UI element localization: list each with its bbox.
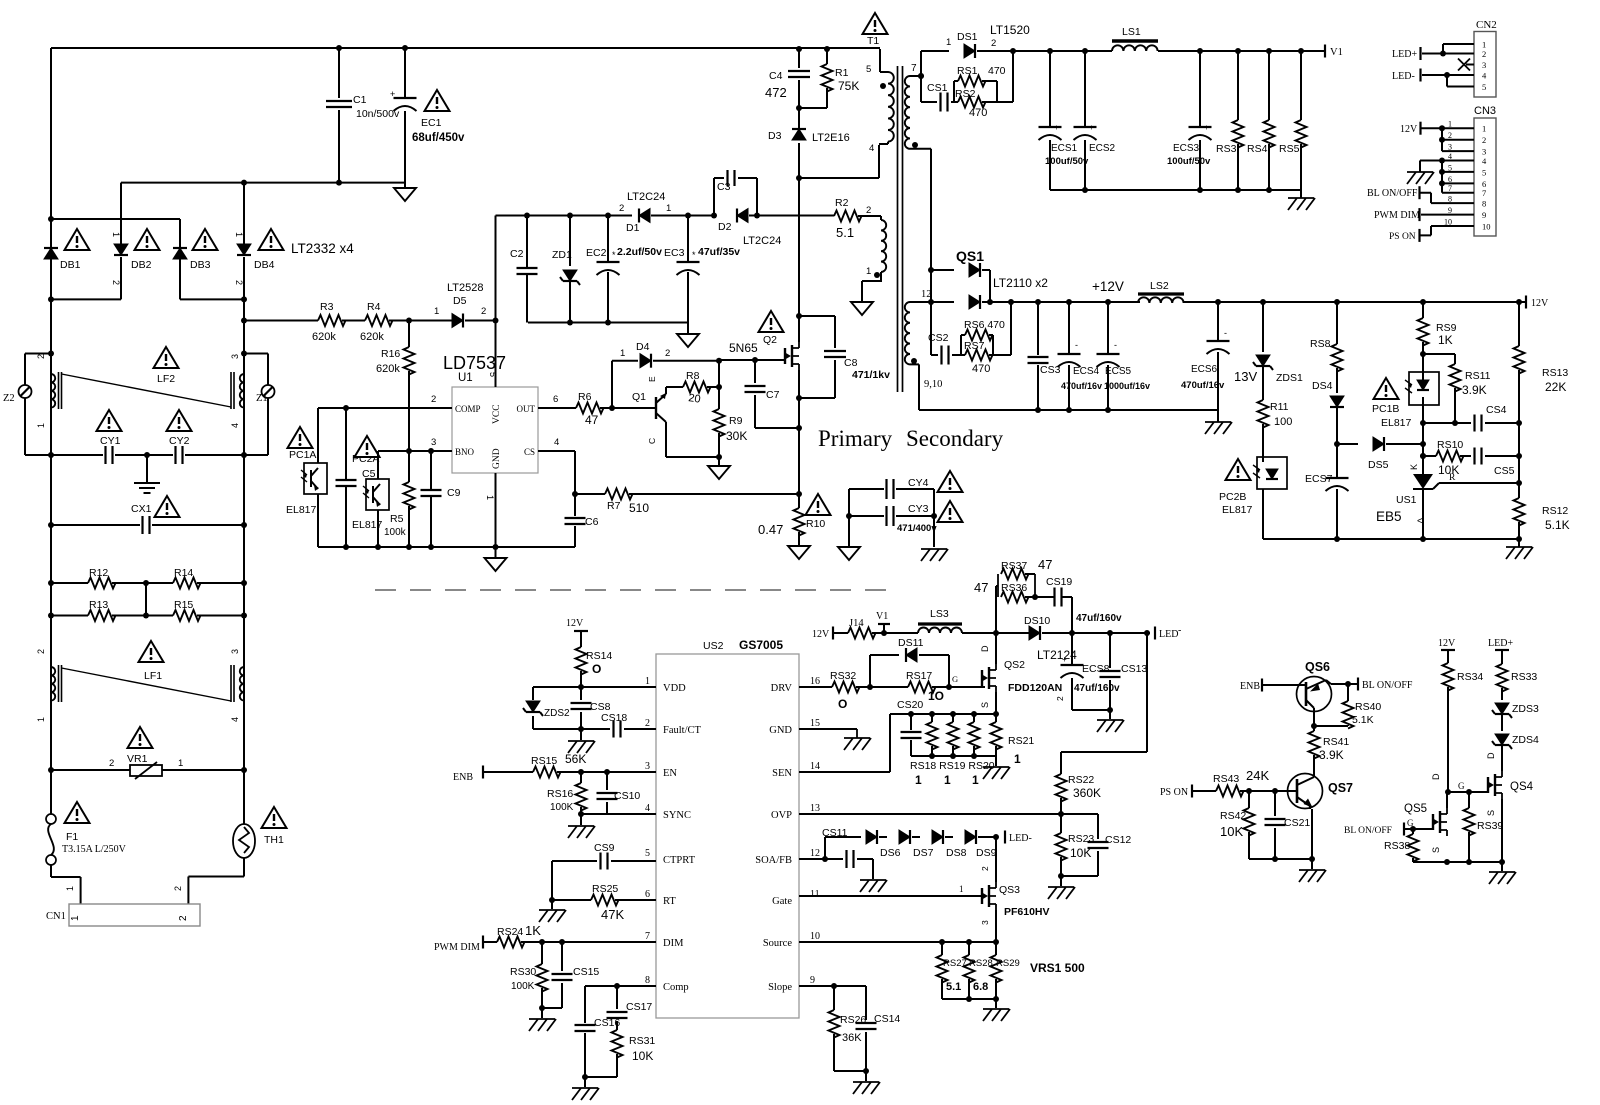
warning CY2 bbox=[167, 410, 192, 431]
resistor RS3 bbox=[1216, 51, 1244, 190]
capacitor EC3 bbox=[664, 216, 740, 323]
svg-text:LF1: LF1 bbox=[144, 670, 162, 682]
svg-text:16: 16 bbox=[810, 676, 820, 687]
wire U1 VCC lead bbox=[488, 321, 498, 388]
ground U1 bbox=[485, 547, 507, 571]
svg-text:D: D bbox=[1431, 773, 1441, 780]
svg-text:+: + bbox=[1089, 123, 1094, 132]
warning DB3 bbox=[193, 229, 218, 250]
svg-text:9: 9 bbox=[810, 975, 815, 986]
resistor RS21 bbox=[991, 714, 1035, 766]
wire R4-D5 bbox=[389, 318, 452, 324]
svg-text:100: 100 bbox=[1274, 416, 1292, 428]
wire DS6 feed bbox=[825, 837, 861, 859]
svg-text:RS32: RS32 bbox=[830, 670, 856, 682]
svg-text:CTPRT: CTPRT bbox=[663, 855, 696, 866]
svg-text:RS23: RS23 bbox=[1068, 833, 1094, 845]
svg-text:100uf/50v: 100uf/50v bbox=[1045, 156, 1089, 167]
svg-text:CS: CS bbox=[524, 447, 535, 457]
transformer T1 primary coil bbox=[866, 49, 894, 144]
resistor RS28 bbox=[964, 942, 993, 999]
svg-text:+: + bbox=[1054, 123, 1059, 132]
svg-text:ECS3: ECS3 bbox=[1173, 143, 1200, 154]
svg-text:DS10: DS10 bbox=[1024, 615, 1050, 627]
svg-text:75K: 75K bbox=[838, 79, 859, 93]
ground RS29 bbox=[983, 999, 1010, 1021]
svg-text:R2: R2 bbox=[835, 197, 849, 209]
warning CY1 bbox=[97, 410, 122, 431]
diode DS9 bbox=[965, 830, 999, 859]
svg-text:RS39: RS39 bbox=[1477, 820, 1503, 832]
wire J14-LS3 bbox=[872, 630, 918, 636]
svg-text:470: 470 bbox=[969, 107, 987, 119]
svg-text:QS2: QS2 bbox=[1004, 659, 1025, 671]
svg-text:1K: 1K bbox=[525, 923, 541, 938]
svg-text:Fault/CT: Fault/CT bbox=[663, 725, 702, 736]
resistor RS16 bbox=[547, 772, 587, 814]
svg-text:RS36: RS36 bbox=[1001, 582, 1027, 594]
svg-text:1O: 1O bbox=[928, 689, 944, 703]
svg-text:CS20: CS20 bbox=[897, 699, 923, 711]
wire QS2 drain bbox=[995, 633, 997, 664]
capacitor ECS6 bbox=[1181, 302, 1230, 410]
resistor RS12 bbox=[1514, 423, 1570, 539]
wire RS22 top bbox=[1061, 633, 1147, 774]
ground EC1 bbox=[394, 182, 416, 201]
svg-text:3: 3 bbox=[1482, 60, 1486, 70]
resistor R5 bbox=[384, 451, 415, 547]
svg-text:36K: 36K bbox=[842, 1032, 862, 1044]
resistor RS43 bbox=[1213, 768, 1269, 797]
svg-text:R8: R8 bbox=[686, 370, 700, 382]
svg-text:-: - bbox=[1178, 625, 1181, 636]
svg-text:3: 3 bbox=[230, 354, 240, 359]
wire U1 BNO lead bbox=[378, 437, 452, 454]
svg-text:R7: R7 bbox=[607, 500, 621, 512]
labels LF2 pins bbox=[36, 354, 240, 428]
svg-text:LED-: LED- bbox=[1009, 833, 1032, 844]
svg-text:LT1520: LT1520 bbox=[990, 23, 1030, 37]
svg-text:EL817: EL817 bbox=[286, 504, 317, 516]
svg-text:7: 7 bbox=[645, 931, 650, 942]
wire C4R1 junction bbox=[796, 105, 802, 111]
wire OVP lead bbox=[799, 813, 1061, 815]
capacitor CS4 bbox=[1420, 404, 1522, 432]
svg-text:12: 12 bbox=[810, 848, 820, 859]
capacitor CY1 bbox=[51, 435, 147, 464]
label Primary bbox=[818, 426, 893, 451]
svg-text:RS1: RS1 bbox=[957, 65, 978, 77]
zener ZDS2 bbox=[523, 687, 581, 729]
svg-text:CN1: CN1 bbox=[46, 911, 66, 922]
capacitor C2 bbox=[510, 216, 538, 323]
svg-text:CY4: CY4 bbox=[908, 477, 929, 489]
wire Slope lead bbox=[799, 983, 866, 989]
svg-text:8: 8 bbox=[645, 975, 650, 986]
wire RS12 to rail bbox=[997, 51, 1013, 102]
ground QS4 QS5 bbox=[1489, 862, 1516, 884]
svg-text:DS4: DS4 bbox=[1312, 380, 1333, 392]
transistor QS5 bbox=[1404, 773, 1447, 853]
wire Q1 collector bbox=[666, 422, 722, 460]
label LT2332 x4 bbox=[291, 241, 354, 256]
svg-text:LED-: LED- bbox=[1392, 71, 1415, 82]
svg-text:1: 1 bbox=[1448, 120, 1452, 129]
ground V1 rail bbox=[1288, 190, 1315, 210]
terminal 12V RS14 bbox=[566, 618, 588, 647]
svg-text:R16: R16 bbox=[381, 348, 400, 360]
svg-text:620k: 620k bbox=[312, 331, 336, 343]
svg-text:100K: 100K bbox=[511, 981, 535, 992]
svg-text:1: 1 bbox=[666, 203, 671, 214]
resistor RS32 bbox=[799, 670, 860, 711]
svg-text:C6: C6 bbox=[585, 516, 599, 528]
capacitor CX1 bbox=[48, 503, 247, 534]
svg-text:CN2: CN2 bbox=[1476, 19, 1497, 31]
svg-text:V1: V1 bbox=[1330, 47, 1343, 58]
svg-text:3.9K: 3.9K bbox=[1462, 383, 1487, 397]
diode D2 bbox=[711, 209, 781, 248]
svg-text:471/1kv: 471/1kv bbox=[852, 369, 890, 381]
terminal PS ON bbox=[1160, 785, 1216, 799]
svg-text:R9: R9 bbox=[729, 415, 743, 427]
svg-text:47: 47 bbox=[585, 413, 599, 427]
svg-text:O: O bbox=[838, 697, 847, 711]
label LT2528 bbox=[447, 282, 484, 294]
capacitor CS10 bbox=[597, 772, 641, 814]
svg-text:360K: 360K bbox=[1073, 786, 1101, 800]
resistor RS14 bbox=[576, 647, 613, 687]
wire main HV top rail bbox=[51, 45, 880, 52]
svg-text:RS28: RS28 bbox=[969, 958, 993, 969]
svg-text:C3: C3 bbox=[717, 181, 731, 193]
warning DB4 bbox=[259, 229, 284, 250]
svg-text:47K: 47K bbox=[601, 907, 624, 922]
svg-text:2: 2 bbox=[481, 306, 486, 317]
wire QS4 gate bbox=[1445, 789, 1488, 795]
svg-text:2: 2 bbox=[109, 758, 114, 769]
svg-text:4: 4 bbox=[869, 143, 874, 154]
svg-text:4: 4 bbox=[230, 423, 240, 428]
wire vcc cap bottom rail bbox=[528, 320, 688, 326]
svg-text:EB5: EB5 bbox=[1376, 509, 1402, 524]
svg-text:SOA/FB: SOA/FB bbox=[755, 855, 792, 866]
terminal LED- mid bbox=[1005, 831, 1032, 845]
svg-text:Source: Source bbox=[763, 938, 792, 949]
resistor J14 bbox=[848, 618, 876, 639]
svg-text:1: 1 bbox=[65, 886, 75, 891]
inductor LS2 bbox=[1138, 280, 1184, 303]
svg-text:C: C bbox=[647, 438, 657, 444]
svg-text:10: 10 bbox=[1482, 222, 1491, 232]
capacitor CS11 bbox=[822, 827, 887, 892]
svg-text:BNO: BNO bbox=[455, 447, 475, 457]
svg-text:C8: C8 bbox=[844, 357, 858, 369]
svg-text:2: 2 bbox=[431, 394, 436, 405]
terminal ENB QS6 bbox=[1240, 679, 1306, 693]
capacitor CS16 bbox=[575, 1017, 621, 1077]
svg-text:RS3: RS3 bbox=[1216, 143, 1237, 155]
svg-text:RT: RT bbox=[663, 896, 676, 907]
ground ZDS2 CS8 bbox=[568, 729, 595, 753]
resistor R7 bbox=[575, 489, 649, 516]
svg-text:1: 1 bbox=[915, 773, 922, 787]
wire V1 ground rail bbox=[1050, 187, 1301, 193]
wire SYNC lead bbox=[578, 811, 656, 817]
svg-text:D3: D3 bbox=[768, 130, 782, 142]
svg-text:0.47: 0.47 bbox=[758, 522, 783, 537]
terminal LED+ QS4 bbox=[1488, 638, 1513, 664]
wire U1 GND lead bbox=[485, 473, 499, 550]
transistor QS4 bbox=[1458, 752, 1534, 816]
resistor R16 bbox=[376, 321, 415, 452]
transistor Q1 bbox=[632, 376, 666, 444]
svg-text:14: 14 bbox=[810, 761, 820, 772]
wire PC1A emitter bbox=[317, 494, 319, 547]
svg-text:2.2uf/50v: 2.2uf/50v bbox=[617, 246, 662, 258]
wire D5-VCC node bbox=[465, 318, 499, 324]
svg-text:47uf/160v: 47uf/160v bbox=[1076, 613, 1122, 624]
svg-text:12V: 12V bbox=[1438, 638, 1456, 649]
svg-text:CS12: CS12 bbox=[1105, 834, 1131, 846]
svg-text:2: 2 bbox=[178, 915, 189, 921]
IC U1 LD7537 box bbox=[443, 353, 538, 473]
svg-text:J14: J14 bbox=[849, 618, 864, 629]
svg-text:QS4: QS4 bbox=[1510, 781, 1534, 793]
svg-text:S: S bbox=[980, 702, 990, 708]
wire Comp lead bbox=[585, 983, 656, 1023]
resistor RS1 bbox=[954, 65, 1006, 102]
resistor RS31 bbox=[612, 1030, 656, 1077]
capacitor C4 bbox=[765, 49, 810, 108]
svg-text:12V: 12V bbox=[1531, 298, 1549, 309]
wire RS36 left leg bbox=[996, 586, 998, 633]
wire QS6 emitter bbox=[1311, 711, 1317, 731]
wire U1 COMP lead bbox=[318, 394, 452, 411]
svg-text:RS33: RS33 bbox=[1511, 671, 1537, 683]
svg-text:R3: R3 bbox=[320, 301, 334, 313]
resistor RS20 bbox=[969, 714, 980, 756]
svg-text:VR1: VR1 bbox=[127, 753, 148, 765]
capacitor CY2 bbox=[144, 435, 244, 464]
choke LF1 right coil bbox=[231, 665, 244, 702]
resistor RS40 bbox=[1313, 684, 1381, 729]
svg-text:8: 8 bbox=[1448, 195, 1452, 204]
wire QS4 source bbox=[1501, 799, 1503, 862]
svg-text:22K: 22K bbox=[1545, 380, 1566, 394]
diode DS8 bbox=[932, 830, 967, 859]
ground comp bbox=[572, 1077, 599, 1100]
svg-text:LT2E16: LT2E16 bbox=[812, 132, 850, 144]
warning F1 bbox=[62, 802, 127, 855]
capacitor ECS3 bbox=[1167, 51, 1212, 190]
capacitor ECS5 bbox=[1097, 302, 1151, 410]
dual diode QS1 bbox=[928, 248, 1048, 309]
svg-text:6: 6 bbox=[1448, 175, 1452, 184]
svg-text:5N65: 5N65 bbox=[729, 341, 758, 355]
svg-text:CS15: CS15 bbox=[573, 966, 599, 978]
svg-text:LED+: LED+ bbox=[1392, 49, 1417, 60]
svg-text:1K: 1K bbox=[1438, 333, 1453, 347]
svg-text:1: 1 bbox=[866, 266, 871, 277]
svg-text:C7: C7 bbox=[766, 389, 780, 401]
svg-text:1: 1 bbox=[972, 773, 979, 787]
svg-text:12V: 12V bbox=[812, 629, 830, 640]
svg-text:2: 2 bbox=[173, 886, 183, 891]
zener ZDS4 bbox=[1492, 734, 1539, 771]
resistor R9 bbox=[714, 361, 748, 457]
label Secondary bbox=[906, 426, 1004, 451]
capacitor CY3 bbox=[849, 503, 937, 534]
svg-text:TH1: TH1 bbox=[264, 834, 284, 846]
wire D2-R2 bbox=[749, 215, 834, 217]
label +12V bbox=[1092, 279, 1124, 294]
svg-text:SEN: SEN bbox=[772, 768, 792, 779]
ground ECS8 bbox=[1097, 710, 1124, 732]
resistor RS41 bbox=[1309, 731, 1350, 777]
shunt regulator US1 EB5 bbox=[1376, 444, 1522, 539]
resistor R6 bbox=[576, 391, 604, 427]
wire PC1A collector bbox=[317, 408, 319, 463]
resistor RS38 bbox=[1384, 829, 1419, 862]
warning PC1B bbox=[1374, 378, 1399, 399]
resistor R8 bbox=[683, 370, 711, 406]
svg-text:CS5: CS5 bbox=[1494, 465, 1515, 477]
svg-text:47uf/35v: 47uf/35v bbox=[698, 246, 740, 258]
diode DB3 bbox=[173, 248, 211, 271]
resistor R1 bbox=[799, 49, 859, 108]
wire RS17-QS2 gate bbox=[932, 674, 985, 690]
resistor RS9 bbox=[1418, 302, 1457, 357]
svg-text:620k: 620k bbox=[376, 363, 400, 375]
wire PC2A emitter bbox=[377, 510, 379, 547]
ground CY left bbox=[838, 547, 860, 560]
diode DS10 bbox=[1024, 615, 1072, 640]
svg-text:QS7: QS7 bbox=[1328, 781, 1353, 795]
diode D1 bbox=[619, 191, 671, 234]
wire QS5 drain bbox=[1446, 792, 1448, 808]
svg-text:1000uf/16v: 1000uf/16v bbox=[1104, 381, 1150, 391]
resistor RS5 bbox=[1279, 51, 1307, 190]
svg-text:RS31: RS31 bbox=[629, 1035, 655, 1047]
svg-text:Slope: Slope bbox=[768, 982, 792, 993]
resistor RS22 bbox=[1056, 774, 1102, 814]
wire 12V rail B bbox=[1184, 299, 1526, 305]
svg-text:LT2332 x4: LT2332 x4 bbox=[291, 241, 354, 256]
svg-text:Comp: Comp bbox=[663, 982, 689, 993]
diode DS4 bbox=[1312, 380, 1344, 447]
warning EC1 bbox=[425, 90, 450, 111]
svg-text:<: < bbox=[1417, 516, 1423, 527]
transistor QS7 bbox=[1288, 774, 1354, 810]
IC US2 GS7005 bbox=[656, 638, 799, 1018]
terminal PWM DIM CN3 bbox=[1374, 208, 1420, 221]
svg-text:472: 472 bbox=[765, 85, 787, 100]
svg-text:PS ON: PS ON bbox=[1160, 787, 1188, 798]
svg-text:RS29: RS29 bbox=[996, 958, 1020, 969]
diode D4 bbox=[612, 341, 670, 408]
transistor QS6 bbox=[1297, 660, 1332, 712]
ground R10 bbox=[788, 546, 810, 559]
warning DB1 bbox=[65, 229, 90, 250]
svg-text:QS6: QS6 bbox=[1305, 660, 1330, 674]
svg-text:D: D bbox=[1486, 752, 1496, 759]
svg-text:EC2: EC2 bbox=[586, 247, 607, 259]
capacitor CS17 bbox=[607, 986, 653, 1030]
svg-text:VCC: VCC bbox=[492, 404, 502, 424]
wire RS43-QS7 base bbox=[1240, 788, 1297, 794]
terminal 12V QS4 bbox=[1438, 638, 1456, 663]
svg-text:3.9K: 3.9K bbox=[1319, 748, 1344, 762]
svg-text:Gate: Gate bbox=[772, 896, 792, 907]
svg-text:CS9: CS9 bbox=[594, 842, 615, 854]
wire RS32-RS17 bbox=[856, 684, 908, 690]
svg-text:1: 1 bbox=[111, 232, 121, 237]
inductor LS3 bbox=[918, 608, 962, 633]
svg-text:1: 1 bbox=[944, 773, 951, 787]
transistor QS2 FDD120AN bbox=[980, 645, 1062, 708]
warning PC2B bbox=[1226, 459, 1251, 480]
svg-text:3: 3 bbox=[230, 649, 240, 654]
wire U1 CS lead bbox=[538, 437, 578, 497]
svg-text:47: 47 bbox=[974, 580, 988, 595]
capacitor EC1 bbox=[390, 48, 465, 182]
svg-text:2: 2 bbox=[36, 354, 46, 359]
svg-text:EC3: EC3 bbox=[664, 247, 685, 259]
wire Source lead bbox=[799, 939, 996, 945]
svg-text:CS10: CS10 bbox=[614, 790, 640, 802]
svg-text:EN: EN bbox=[663, 768, 677, 779]
capacitor C5 bbox=[336, 408, 376, 547]
varistor VR1 bbox=[48, 753, 247, 779]
svg-text:+: + bbox=[1204, 123, 1209, 132]
svg-text:ENB: ENB bbox=[1240, 681, 1260, 692]
svg-text:1: 1 bbox=[1482, 124, 1486, 134]
terminal ENB bbox=[453, 766, 533, 784]
svg-text:RS2: RS2 bbox=[955, 88, 976, 100]
diode DB2 bbox=[111, 232, 152, 285]
svg-text:47: 47 bbox=[1038, 557, 1052, 572]
wire pin7 node bbox=[918, 51, 924, 102]
resistor RS18 bbox=[927, 714, 938, 756]
resistor R2 bbox=[834, 197, 862, 240]
wire left column down bbox=[50, 299, 52, 770]
svg-text:RS21: RS21 bbox=[1008, 735, 1034, 747]
svg-text:R1: R1 bbox=[835, 67, 849, 79]
terminal BL ON/OFF QS5 bbox=[1344, 818, 1433, 836]
transformer T1 aux coil bbox=[858, 205, 886, 301]
resistor RS30 bbox=[510, 942, 548, 1008]
terminal 12V right bbox=[1526, 296, 1549, 310]
optocoupler PC1B bbox=[1372, 372, 1439, 429]
svg-text:3: 3 bbox=[1448, 143, 1452, 152]
svg-text:1: 1 bbox=[645, 676, 650, 687]
wire boost out rail bbox=[1069, 630, 1150, 636]
svg-text:RS37: RS37 bbox=[1001, 560, 1027, 572]
warning TH1 bbox=[262, 807, 287, 846]
svg-text:RS16: RS16 bbox=[547, 788, 573, 800]
wire D1-EC3 bbox=[651, 213, 714, 219]
wire CN3 gnd bracket bbox=[1439, 158, 1445, 193]
svg-text:RS30: RS30 bbox=[510, 966, 536, 978]
wire QS7 gnd rail bbox=[1249, 856, 1315, 862]
svg-text:S: S bbox=[1431, 847, 1441, 853]
label CS19 voltage bbox=[1076, 613, 1122, 624]
resistor R13 bbox=[48, 599, 116, 621]
svg-text:11: 11 bbox=[810, 889, 820, 900]
fuse F1 bbox=[46, 770, 81, 904]
capacitor CS18 bbox=[581, 712, 656, 738]
